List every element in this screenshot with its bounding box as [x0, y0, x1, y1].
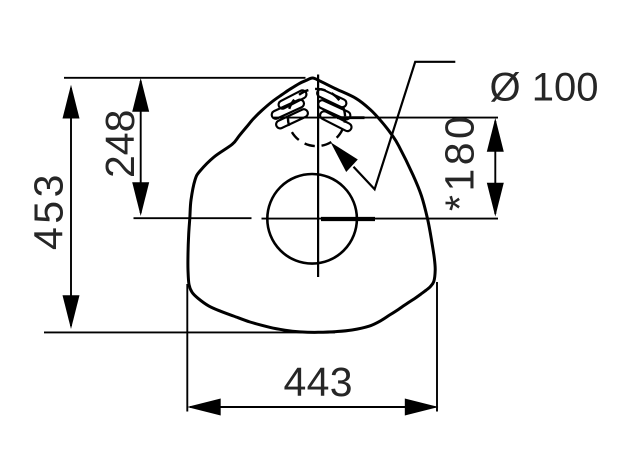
spray jet L3 [275, 108, 309, 130]
svg-text:443: 443 [284, 359, 353, 405]
svg-text:Ø 100: Ø 100 [490, 66, 599, 110]
top extension line [64, 77, 306, 79]
spray jet R3 [319, 110, 353, 133]
dimension 443 line [187, 399, 439, 416]
inlet dashed circle [288, 89, 345, 146]
leader line D100 [331, 62, 456, 190]
spray jet R2 [317, 99, 352, 121]
right extension line 443 [436, 282, 438, 412]
drain circle [267, 174, 357, 264]
dimension 453 line [63, 85, 80, 329]
inlet extension line [274, 117, 498, 119]
svg-text:*180: *180 [437, 113, 483, 211]
overflow thick bar [321, 217, 375, 221]
svg-text:248: 248 [97, 110, 143, 178]
mid extension line left [134, 217, 252, 219]
vertical center line [317, 75, 319, 278]
dimension 248 line [132, 78, 149, 216]
bottom extension line [44, 331, 335, 333]
dimension 180 line [487, 118, 504, 217]
left extension line 443 [186, 284, 188, 412]
svg-text:453: 453 [26, 171, 72, 250]
inlet extension line bold part [337, 116, 365, 119]
spray jet L1 [277, 89, 308, 110]
horizontal center mark [262, 218, 499, 220]
basin outline [188, 78, 435, 332]
spray jet L2 [270, 98, 305, 120]
spray jet R1 [316, 88, 348, 109]
